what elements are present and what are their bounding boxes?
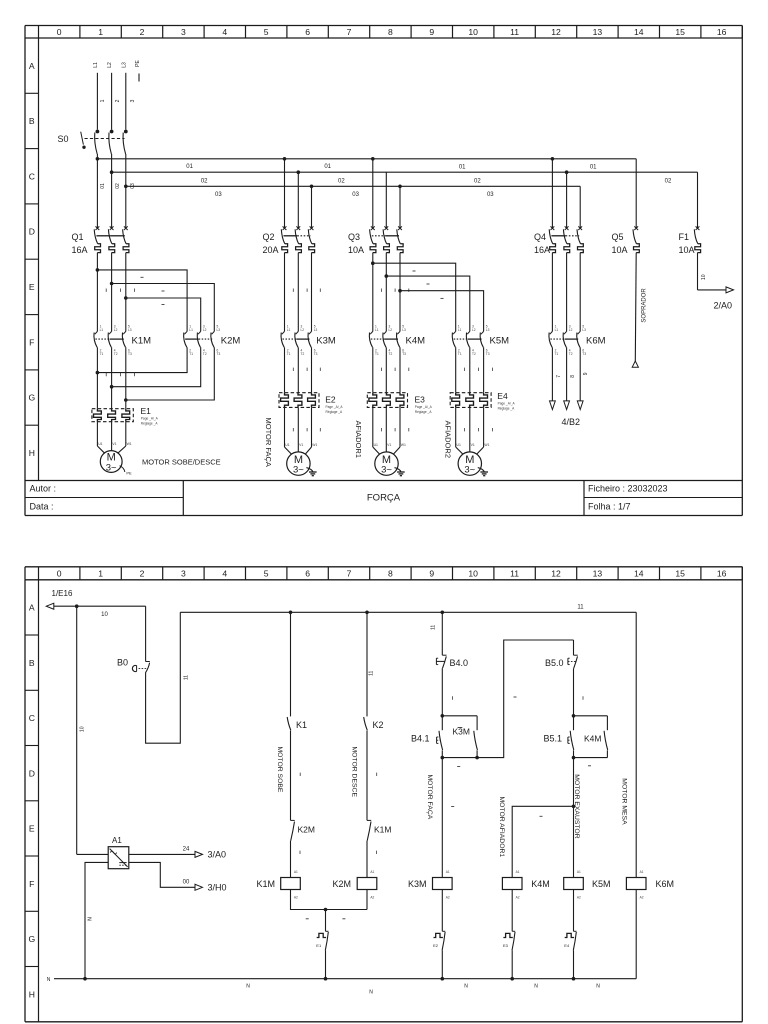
svg-text:Q1: Q1 bbox=[72, 232, 84, 242]
svg-text:MOTOR FAÇA: MOTOR FAÇA bbox=[264, 418, 273, 467]
wire Q5 to SOPRADOR outlet bbox=[632, 253, 647, 368]
svg-text:L1: L1 bbox=[189, 328, 193, 332]
circuit-breaker Q5 10A bbox=[612, 226, 640, 255]
svg-text:3: 3 bbox=[181, 569, 186, 579]
svg-text:11: 11 bbox=[510, 27, 519, 37]
svg-text:T3: T3 bbox=[582, 352, 586, 356]
svg-text:A2: A2 bbox=[446, 896, 450, 900]
svg-text:10: 10 bbox=[468, 569, 478, 579]
svg-text:5: 5 bbox=[264, 569, 269, 579]
wire tap Q3 pole3 to K5M pole3 bbox=[400, 291, 484, 332]
coil K4M bbox=[502, 870, 549, 899]
contactor K2M main contacts bbox=[184, 325, 241, 356]
motor M2 MOTOR FACA bbox=[264, 407, 320, 475]
svg-text:Data :: Data : bbox=[30, 502, 54, 512]
svg-text:K2M: K2M bbox=[221, 335, 241, 346]
wire K3M to overload E2 bbox=[285, 347, 321, 392]
svg-text:L1: L1 bbox=[100, 328, 104, 332]
svg-text:E1: E1 bbox=[141, 406, 152, 416]
sheet 1 frame and reference grid bbox=[25, 26, 742, 516]
svg-text:10: 10 bbox=[701, 274, 707, 280]
wire K2M outputs back to motor feed bbox=[96, 347, 215, 402]
wire F1 to off-page arrow 2/A0 bbox=[698, 253, 734, 311]
coil K1M bbox=[257, 870, 301, 899]
svg-text:10: 10 bbox=[468, 27, 478, 37]
wire tap to coil K4M bbox=[498, 797, 574, 878]
thermal contact E1 bbox=[316, 931, 328, 978]
svg-text:E1: E1 bbox=[316, 943, 322, 948]
svg-text:C: C bbox=[29, 171, 35, 181]
svg-text:N: N bbox=[464, 984, 468, 990]
wire phase L3 incomer bbox=[126, 73, 136, 130]
wire 03 bus bbox=[124, 154, 580, 226]
svg-text:02: 02 bbox=[201, 178, 208, 184]
fuse-breaker F1 10A bbox=[679, 226, 701, 255]
svg-text:W1: W1 bbox=[312, 443, 317, 447]
svg-text:14: 14 bbox=[634, 569, 644, 579]
svg-text:8: 8 bbox=[388, 569, 393, 579]
svg-text:B: B bbox=[29, 658, 35, 668]
svg-text:W1: W1 bbox=[401, 443, 406, 447]
svg-text:K5M: K5M bbox=[592, 879, 611, 889]
svg-text:K3M: K3M bbox=[408, 879, 427, 889]
wire crossover L3 to K2M pole2 bbox=[126, 298, 201, 331]
svg-text:16: 16 bbox=[717, 27, 727, 37]
coil K3M bbox=[408, 870, 452, 899]
svg-text:3: 3 bbox=[130, 99, 136, 102]
svg-text:L3: L3 bbox=[128, 328, 132, 332]
svg-text:A1: A1 bbox=[112, 836, 122, 845]
coil K5M bbox=[564, 870, 611, 899]
contactor K3M main contacts bbox=[281, 325, 336, 356]
svg-text:A1: A1 bbox=[370, 870, 374, 874]
thermal contact E4 bbox=[564, 890, 576, 979]
svg-text:Réglage _A: Réglage _A bbox=[141, 422, 159, 426]
contactor K5M main contacts bbox=[452, 325, 509, 356]
svg-text:T2: T2 bbox=[301, 352, 305, 356]
svg-text:T1: T1 bbox=[375, 352, 379, 356]
svg-text:3/A0: 3/A0 bbox=[208, 850, 227, 860]
svg-text:L2: L2 bbox=[107, 62, 113, 68]
svg-text:PE: PE bbox=[135, 60, 141, 67]
wire Q1 to K1M with reversing taps bbox=[96, 253, 128, 332]
overload relay E3 bbox=[367, 393, 432, 414]
svg-text:2/A0: 2/A0 bbox=[714, 300, 733, 310]
wire A1 output 0V to 3/H0 bbox=[129, 862, 227, 892]
svg-text:9: 9 bbox=[429, 569, 434, 579]
svg-text:F: F bbox=[29, 879, 34, 889]
contact K1 (motor sobe) bbox=[276, 612, 307, 820]
svg-text:16: 16 bbox=[717, 569, 727, 579]
sheet 2 frame and reference grid bbox=[25, 567, 742, 1022]
svg-text:U1: U1 bbox=[285, 443, 289, 447]
svg-text:E2: E2 bbox=[325, 394, 336, 404]
svg-text:3~: 3~ bbox=[293, 464, 304, 475]
svg-text:K6M: K6M bbox=[586, 335, 606, 346]
svg-text:F1: F1 bbox=[679, 232, 690, 242]
wire K1M K2M coils to thermal E1 bbox=[291, 890, 368, 932]
svg-text:B: B bbox=[29, 116, 35, 126]
svg-text:K1: K1 bbox=[296, 720, 307, 730]
power supply A1 bbox=[108, 836, 129, 869]
svg-text:6: 6 bbox=[305, 27, 310, 37]
svg-text:01: 01 bbox=[186, 164, 193, 170]
wire crossover L1 to K2M pole1 bbox=[97, 270, 187, 332]
svg-text:16A: 16A bbox=[72, 245, 88, 255]
wire B4.1 to coil K3M bbox=[426, 758, 460, 878]
svg-text:K6M: K6M bbox=[656, 879, 675, 889]
svg-text:H: H bbox=[29, 989, 35, 999]
wire tap Q3 pole1 to K5M pole1 bbox=[373, 263, 456, 331]
svg-text:B4.1: B4.1 bbox=[411, 733, 430, 743]
svg-text:10: 10 bbox=[79, 726, 85, 732]
svg-text:E4: E4 bbox=[564, 943, 570, 948]
svg-text:AFIADOR1: AFIADOR1 bbox=[354, 421, 363, 459]
svg-text:C: C bbox=[29, 713, 35, 723]
svg-text:Réglage _A: Réglage _A bbox=[326, 410, 344, 414]
svg-text:13: 13 bbox=[593, 27, 603, 37]
svg-text:01: 01 bbox=[590, 165, 597, 171]
svg-text:1/E16: 1/E16 bbox=[52, 589, 73, 598]
svg-text:8: 8 bbox=[388, 27, 393, 37]
svg-text:T1: T1 bbox=[555, 352, 559, 356]
overload relay E4 bbox=[450, 391, 515, 411]
svg-text:10A: 10A bbox=[348, 245, 364, 255]
svg-text:E: E bbox=[29, 824, 35, 834]
svg-text:G: G bbox=[28, 934, 35, 944]
svg-text:N: N bbox=[47, 977, 51, 983]
svg-text:11: 11 bbox=[510, 569, 519, 579]
svg-text:3~: 3~ bbox=[464, 464, 475, 475]
wire N bus bbox=[47, 977, 637, 996]
svg-text:D: D bbox=[29, 768, 35, 778]
svg-text:6: 6 bbox=[305, 569, 310, 579]
limit switch B4.0 (NC) bbox=[430, 612, 468, 716]
svg-text:L2: L2 bbox=[301, 328, 305, 332]
svg-text:T1: T1 bbox=[458, 352, 462, 356]
svg-text:K1M: K1M bbox=[132, 335, 152, 346]
svg-text:K1M: K1M bbox=[257, 879, 276, 889]
svg-text:03: 03 bbox=[487, 192, 494, 198]
limit switch B5.0 (NC) bbox=[545, 640, 583, 716]
svg-text:W1: W1 bbox=[484, 443, 489, 447]
svg-text:3/H0: 3/H0 bbox=[208, 883, 227, 893]
svg-text:D: D bbox=[29, 227, 35, 237]
circuit-breaker Q3 10A bbox=[348, 159, 403, 255]
svg-text:U1: U1 bbox=[374, 443, 378, 447]
svg-text:12: 12 bbox=[551, 569, 561, 579]
svg-text:T1: T1 bbox=[189, 352, 193, 356]
svg-text:MOTOR SOBE/DESCE: MOTOR SOBE/DESCE bbox=[142, 458, 221, 467]
wire K5M to overload E4 bbox=[456, 347, 493, 392]
svg-text:A2: A2 bbox=[577, 896, 581, 900]
svg-text:PE: PE bbox=[126, 471, 132, 476]
svg-text:Q2: Q2 bbox=[263, 232, 275, 242]
svg-text:Autor :: Autor : bbox=[30, 484, 57, 494]
svg-text:0: 0 bbox=[57, 569, 62, 579]
svg-text:4/B2: 4/B2 bbox=[562, 417, 581, 427]
svg-text:S0: S0 bbox=[58, 134, 69, 144]
svg-text:N: N bbox=[596, 984, 600, 990]
svg-text:0: 0 bbox=[57, 27, 62, 37]
svg-text:N: N bbox=[87, 917, 93, 921]
coil K2M bbox=[333, 870, 377, 899]
svg-text:K2: K2 bbox=[373, 720, 384, 730]
motor M1 MOTOR SOBE/DESCE bbox=[97, 422, 220, 476]
svg-text:11: 11 bbox=[369, 670, 375, 675]
svg-text:A1: A1 bbox=[294, 870, 298, 874]
svg-text:E: E bbox=[29, 282, 35, 292]
svg-text:F: F bbox=[29, 337, 34, 347]
svg-text:A: A bbox=[29, 603, 35, 613]
svg-text:A: A bbox=[29, 61, 35, 71]
interlock contact K1M (NC) bbox=[367, 820, 391, 877]
circuit-breaker Q1 16A bbox=[72, 226, 129, 255]
svg-text:2: 2 bbox=[140, 27, 145, 37]
svg-text:A2: A2 bbox=[294, 896, 298, 900]
pushbutton B0 (NC) bbox=[117, 657, 150, 673]
svg-text:B5.0: B5.0 bbox=[545, 658, 564, 668]
svg-text:T2: T2 bbox=[569, 352, 573, 356]
svg-text:Page _A/_A: Page _A/_A bbox=[326, 405, 344, 409]
svg-text:20A: 20A bbox=[263, 245, 279, 255]
svg-text:24: 24 bbox=[183, 846, 190, 852]
svg-text:N: N bbox=[369, 990, 373, 996]
svg-text:U1: U1 bbox=[98, 442, 102, 446]
svg-text:1: 1 bbox=[98, 27, 103, 37]
circuit-breaker Q4 16A bbox=[534, 159, 583, 255]
svg-text:E3: E3 bbox=[415, 394, 426, 404]
svg-text:MOTOR EXAUSTOR: MOTOR EXAUSTOR bbox=[573, 774, 580, 838]
svg-text:1: 1 bbox=[100, 99, 106, 102]
svg-text:9: 9 bbox=[583, 372, 589, 375]
interlock contact K2M (NC) bbox=[291, 820, 315, 877]
svg-text:L1: L1 bbox=[458, 328, 462, 332]
pushbutton B4.1 with K3M holding contact bbox=[411, 697, 517, 759]
svg-text:T2: T2 bbox=[114, 352, 118, 356]
coil K6M bbox=[626, 870, 674, 979]
svg-text:T1: T1 bbox=[100, 352, 104, 356]
svg-text:K4M: K4M bbox=[584, 733, 601, 743]
svg-text:T2: T2 bbox=[472, 352, 476, 356]
wire K4M to overload E3 bbox=[373, 347, 409, 392]
wire Q3 to K4M with taps bbox=[371, 253, 409, 332]
svg-text:U1: U1 bbox=[457, 443, 461, 447]
switch S0 bbox=[58, 130, 128, 154]
svg-text:L2: L2 bbox=[569, 328, 573, 332]
svg-text:13: 13 bbox=[593, 569, 603, 579]
svg-text:Q3: Q3 bbox=[348, 232, 360, 242]
svg-text:3: 3 bbox=[181, 27, 186, 37]
thermal contact E3 bbox=[503, 890, 515, 979]
motor M3 AFIADOR1 bbox=[354, 407, 409, 475]
svg-text:14: 14 bbox=[634, 27, 644, 37]
svg-text:E3: E3 bbox=[503, 943, 509, 948]
svg-text:03: 03 bbox=[352, 192, 359, 198]
svg-text:10: 10 bbox=[101, 612, 108, 618]
svg-text:Q5: Q5 bbox=[612, 232, 624, 242]
svg-text:L1: L1 bbox=[287, 328, 291, 332]
svg-text:E4: E4 bbox=[497, 391, 508, 401]
svg-text:A1: A1 bbox=[640, 870, 644, 874]
svg-text:A1: A1 bbox=[577, 870, 581, 874]
svg-text:01: 01 bbox=[100, 183, 106, 189]
svg-text:A2: A2 bbox=[370, 896, 374, 900]
wire phase L1 incomer bbox=[97, 73, 106, 130]
thermal contact E2 bbox=[433, 890, 445, 979]
svg-text:03: 03 bbox=[130, 183, 136, 189]
circuit-breaker Q2 20A bbox=[263, 159, 315, 255]
svg-text:02: 02 bbox=[338, 178, 345, 184]
svg-text:T3: T3 bbox=[314, 352, 318, 356]
svg-text:11: 11 bbox=[577, 604, 584, 610]
svg-text:02: 02 bbox=[665, 178, 672, 184]
svg-text:00: 00 bbox=[183, 879, 190, 885]
svg-text:L3: L3 bbox=[582, 328, 586, 332]
svg-text:L3: L3 bbox=[121, 62, 127, 68]
wire B0 to bus 11 bbox=[146, 612, 181, 743]
svg-text:3~: 3~ bbox=[106, 462, 117, 473]
wire 10 feed bbox=[54, 604, 146, 854]
svg-text:SOPRADOR: SOPRADOR bbox=[642, 288, 648, 323]
svg-text:A2: A2 bbox=[516, 896, 520, 900]
overload relay E1 bbox=[92, 406, 159, 426]
svg-text:N: N bbox=[246, 984, 250, 990]
svg-text:15: 15 bbox=[675, 569, 685, 579]
svg-text:K1M: K1M bbox=[374, 825, 391, 835]
svg-text:Réglage _A: Réglage _A bbox=[415, 410, 433, 414]
svg-text:Page _A/_A: Page _A/_A bbox=[415, 405, 433, 409]
svg-text:Folha : 1/7: Folha : 1/7 bbox=[588, 502, 631, 512]
wire Q2 to K3M bbox=[285, 253, 321, 332]
svg-text:T1: T1 bbox=[287, 352, 291, 356]
svg-text:T3: T3 bbox=[402, 352, 406, 356]
sheet 1 title block bbox=[25, 481, 742, 516]
svg-text:V1: V1 bbox=[387, 443, 391, 447]
off-page reference 1/E16 bbox=[46, 589, 73, 609]
svg-text:L2: L2 bbox=[114, 328, 118, 332]
svg-text:H: H bbox=[29, 448, 35, 458]
svg-text:02: 02 bbox=[474, 178, 481, 184]
wire numbers above K1M bbox=[105, 289, 107, 292]
svg-text:T2: T2 bbox=[203, 352, 207, 356]
node PE bbox=[135, 60, 141, 82]
wire bus 11 to coil K6M (motor mesa) bbox=[621, 612, 637, 877]
svg-text:N: N bbox=[534, 984, 538, 990]
svg-text:Réglage _A: Réglage _A bbox=[498, 406, 516, 410]
svg-text:L3: L3 bbox=[314, 328, 318, 332]
svg-text:L3: L3 bbox=[217, 328, 221, 332]
svg-text:K3M: K3M bbox=[453, 727, 470, 737]
svg-text:W1: W1 bbox=[127, 442, 132, 446]
wire B5.1 to coil K5M bbox=[572, 758, 580, 878]
contactor K1M main contacts bbox=[94, 325, 151, 356]
svg-text:8: 8 bbox=[570, 375, 576, 378]
svg-text:A2: A2 bbox=[640, 896, 644, 900]
wire bus 11 bbox=[180, 604, 636, 680]
svg-text:3~: 3~ bbox=[381, 464, 392, 475]
svg-text:A1: A1 bbox=[516, 870, 520, 874]
svg-text:AFIADOR2: AFIADOR2 bbox=[444, 421, 453, 459]
svg-text:K5M: K5M bbox=[490, 335, 510, 346]
contactor K4M main contacts bbox=[369, 325, 425, 356]
svg-text:7: 7 bbox=[347, 569, 352, 579]
svg-text:L3: L3 bbox=[486, 328, 490, 332]
svg-text:K4M: K4M bbox=[406, 335, 426, 346]
svg-text:01: 01 bbox=[459, 165, 466, 171]
svg-text:L2: L2 bbox=[472, 328, 476, 332]
wire tap Q3 pole2 to K5M pole2 bbox=[386, 276, 470, 331]
svg-text:MOTOR MESA: MOTOR MESA bbox=[621, 778, 628, 825]
svg-text:FORÇA: FORÇA bbox=[367, 493, 401, 504]
svg-text:Page _A/_A: Page _A/_A bbox=[141, 417, 159, 421]
svg-text:B4.0: B4.0 bbox=[450, 658, 469, 668]
svg-text:K2M: K2M bbox=[298, 825, 315, 835]
wire 01 bus bbox=[96, 154, 637, 226]
svg-text:7: 7 bbox=[347, 27, 352, 37]
svg-text:01: 01 bbox=[324, 164, 331, 170]
svg-text:T2: T2 bbox=[389, 352, 393, 356]
svg-text:T3: T3 bbox=[217, 352, 221, 356]
svg-text:15: 15 bbox=[675, 27, 685, 37]
svg-text:11: 11 bbox=[184, 675, 190, 680]
wire K6M to off-page arrows 4/B2 bbox=[550, 347, 589, 427]
svg-text:MOTOR DESCE: MOTOR DESCE bbox=[350, 747, 357, 798]
svg-text:4: 4 bbox=[222, 569, 227, 579]
svg-text:V1: V1 bbox=[112, 442, 116, 446]
svg-text:5: 5 bbox=[264, 27, 269, 37]
svg-text:Page _A/_A: Page _A/_A bbox=[498, 401, 516, 405]
svg-text:A1: A1 bbox=[446, 870, 450, 874]
svg-text:K2M: K2M bbox=[333, 879, 352, 889]
svg-text:L2: L2 bbox=[203, 328, 207, 332]
motor M4 AFIADOR2 bbox=[444, 407, 493, 475]
svg-text:L3: L3 bbox=[402, 328, 406, 332]
svg-text:2: 2 bbox=[115, 99, 121, 102]
svg-text:MOTOR SOBE: MOTOR SOBE bbox=[276, 747, 283, 793]
svg-text:12: 12 bbox=[551, 27, 561, 37]
svg-text:4: 4 bbox=[222, 27, 227, 37]
svg-text:K3M: K3M bbox=[316, 335, 336, 346]
svg-text:E2: E2 bbox=[433, 943, 439, 948]
svg-text:L1: L1 bbox=[555, 328, 559, 332]
svg-text:1: 1 bbox=[98, 569, 103, 579]
pushbutton B5.1 with K4M holding contact bbox=[544, 714, 608, 766]
wire K1M to overload E1 bbox=[97, 347, 125, 408]
svg-text:16A: 16A bbox=[534, 245, 550, 255]
svg-text:7: 7 bbox=[556, 375, 562, 378]
overload relay E2 bbox=[279, 393, 343, 414]
svg-text:Ficheiro : 23032023: Ficheiro : 23032023 bbox=[588, 484, 668, 494]
svg-text:V1: V1 bbox=[299, 443, 303, 447]
svg-text:02: 02 bbox=[115, 183, 121, 189]
svg-text:Q4: Q4 bbox=[534, 232, 546, 242]
svg-text:MOTOR AFIADOR1: MOTOR AFIADOR1 bbox=[498, 797, 505, 858]
svg-text:10A: 10A bbox=[612, 245, 628, 255]
contact K2 (motor desce) bbox=[350, 612, 383, 820]
svg-text:MOTOR FAÇA: MOTOR FAÇA bbox=[426, 775, 433, 820]
wire A1 to N bbox=[85, 862, 108, 978]
svg-text:V1: V1 bbox=[471, 443, 475, 447]
svg-text:03: 03 bbox=[215, 192, 222, 198]
svg-text:L1: L1 bbox=[375, 328, 379, 332]
svg-text:L1: L1 bbox=[93, 62, 99, 68]
wire phase L2 incomer bbox=[112, 73, 122, 130]
contactor K6M main contacts bbox=[549, 253, 606, 356]
wire A1 output 24V to 3/A0 bbox=[77, 846, 226, 859]
wire crossover L2 to K2M pole3 bbox=[112, 284, 215, 332]
svg-text:T3: T3 bbox=[486, 352, 490, 356]
